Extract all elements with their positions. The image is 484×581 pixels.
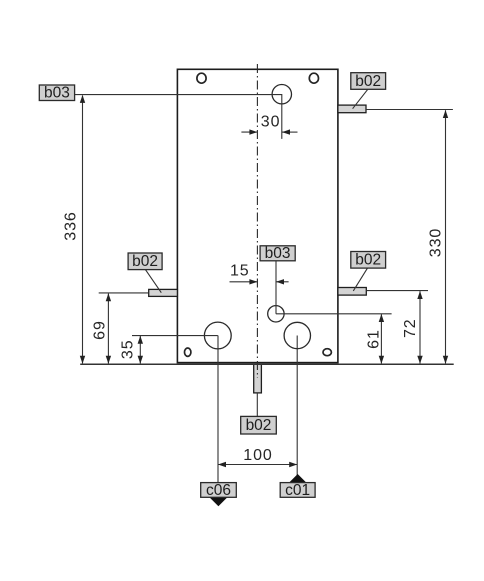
hole bottom-right small <box>323 349 331 356</box>
label b02 top-right <box>351 73 386 90</box>
dimension 30 <box>241 114 297 135</box>
tab left (b02 connector stub) <box>149 289 178 296</box>
svg-text:69: 69 <box>91 320 108 340</box>
leader c06 vertical <box>217 336 219 483</box>
extension line right 72 from tab <box>366 290 428 292</box>
hole bottom-left large (c06) <box>204 322 231 349</box>
extension line left 69 <box>99 292 149 294</box>
svg-text:15: 15 <box>230 263 250 280</box>
svg-text:b03: b03 <box>265 245 291 262</box>
leader b02 top-right diagonal <box>353 90 368 109</box>
leader b03 centre vertical <box>275 261 277 314</box>
dimension 35 <box>120 336 143 364</box>
label c01 <box>280 482 315 499</box>
extension line right 61 from mid hole <box>276 313 392 315</box>
svg-text:b02: b02 <box>355 252 381 269</box>
leader b02 bottom vertical <box>256 393 258 417</box>
hole top-right small <box>309 73 318 83</box>
svg-text:61: 61 <box>366 329 383 349</box>
svg-text:c01: c01 <box>285 482 310 499</box>
hole top offset (b03) <box>272 85 291 104</box>
extension line right 330 from tab <box>366 109 453 111</box>
label b02 mid-right <box>351 252 386 269</box>
label b03 top-left <box>39 85 74 102</box>
hole top-left small <box>197 73 206 83</box>
hole mid offset (b03) <box>268 306 284 322</box>
svg-text:336: 336 <box>63 211 80 240</box>
dimension 15 <box>230 263 289 285</box>
hole bottom-right large (c01) <box>284 322 310 348</box>
marker diamond c06 <box>209 488 227 506</box>
dimension 61 <box>366 314 385 364</box>
dimension 72 <box>402 291 423 364</box>
tab mid-right (b02 connector stub) <box>338 288 366 296</box>
plate outline <box>177 69 338 362</box>
leader b02 left diagonal <box>145 270 161 293</box>
leader c01 vertical <box>296 336 298 483</box>
leader b03 top horizontal <box>75 95 282 139</box>
label b03 centre <box>260 245 295 262</box>
centerline (vertical dash-dot axis) <box>256 64 258 378</box>
svg-text:35: 35 <box>120 339 137 359</box>
svg-text:100: 100 <box>243 447 272 464</box>
svg-text:b03: b03 <box>44 85 70 102</box>
label c06 <box>201 482 237 499</box>
label b02 bottom <box>241 416 277 434</box>
tab top-right (b02 connector stub) <box>338 105 366 113</box>
dimension 100 <box>218 447 297 467</box>
dimension 336 <box>63 95 86 364</box>
dimension 69 <box>91 293 111 364</box>
marker diamond c01 <box>289 474 307 492</box>
hole bottom-left small <box>185 348 191 356</box>
svg-text:30: 30 <box>261 114 281 131</box>
leader b02 mid-right diagonal <box>353 268 367 291</box>
svg-text:b02: b02 <box>246 417 272 434</box>
svg-text:b02: b02 <box>132 253 158 270</box>
tab bottom (b02 connector stub) <box>254 364 262 393</box>
svg-text:330: 330 <box>428 228 445 257</box>
extension line left 35 to c06 centre <box>132 335 218 337</box>
svg-text:b02: b02 <box>355 73 381 90</box>
label b02 left <box>128 253 162 270</box>
svg-text:c06: c06 <box>206 482 231 499</box>
dimension 330 <box>428 110 449 364</box>
extension line bottom datum <box>80 363 454 365</box>
svg-text:72: 72 <box>402 318 419 338</box>
